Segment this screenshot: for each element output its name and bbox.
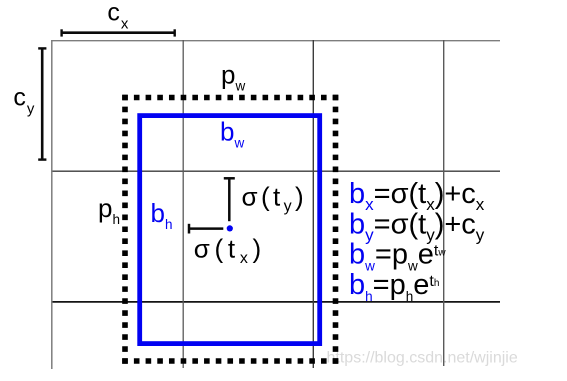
svg-text:https://blog.csdn.net/wjinjie: https://blog.csdn.net/wjinjie [327, 349, 518, 366]
svg-text:σ(ty): σ(ty) [242, 182, 308, 216]
svg-text:bh=pheth: bh=pheth [349, 269, 439, 304]
svg-text:σ(tx): σ(tx) [194, 234, 266, 268]
